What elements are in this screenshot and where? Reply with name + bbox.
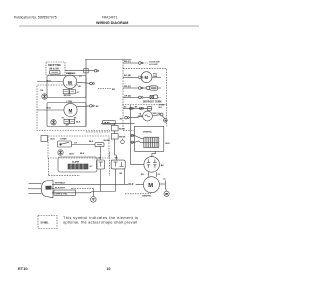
svg-text:C FAN: C FAN [66, 100, 72, 103]
svg-text:BR: BR [112, 89, 115, 91]
main bus down to relay [131, 105, 144, 164]
svg-text:WH: WH [159, 107, 163, 109]
cold control dashed box [48, 136, 109, 158]
svg-text:BK: BK [161, 165, 164, 167]
svg-text:GY: GY [77, 92, 80, 94]
circled sensor 3 [58, 150, 63, 155]
terminal board box [135, 126, 171, 151]
svg-text:GY: GY [90, 166, 94, 168]
wire: terminal board to relay [152, 151, 156, 156]
condenser fan motor enclosure [47, 103, 86, 127]
ground bar wire [92, 191, 115, 193]
svg-text:M: M [69, 108, 73, 113]
freezer fan motor M3 [141, 72, 152, 83]
svg-text:TB BK: TB BK [104, 122, 111, 124]
svg-text:OL: OL [158, 174, 162, 176]
circled sensor 1 [42, 94, 47, 99]
node D defrost heater row [123, 86, 161, 90]
svg-text:RD BK: RD BK [119, 129, 126, 131]
svg-text:RN: RN [141, 174, 144, 176]
optional symbol note box [38, 216, 57, 229]
svg-text:BLK: BLK [70, 154, 75, 156]
svg-text:EVAP FAN: EVAP FAN [66, 72, 76, 75]
wire: cold control to connector [72, 144, 96, 146]
cabinet left wall [85, 60, 87, 127]
evaporator fan motor M1 [63, 75, 77, 89]
dashed separator below alarm box [49, 175, 81, 177]
svg-text:BLK: BLK [166, 143, 171, 145]
svg-text:RD: RD [120, 119, 123, 121]
svg-text:ET10: ET10 [18, 266, 28, 271]
node B freezer fan row [123, 72, 161, 83]
dashed edge right of junction area [109, 152, 111, 176]
node C door switch row [123, 61, 159, 66]
svg-text:DOOR SW: DOOR SW [149, 61, 159, 63]
inline component on timer wire [84, 69, 88, 73]
svg-text:TB: TB [139, 113, 142, 115]
connector squares chain [104, 123, 127, 160]
ground symbol [91, 192, 97, 203]
svg-text:BK: BK [120, 173, 123, 175]
alarm control box [58, 153, 97, 172]
connector pair on M1 wire [90, 82, 93, 85]
defrost heater [150, 86, 158, 90]
svg-text:GY/BK: GY/BK [60, 139, 67, 141]
svg-text:OLD: OLD [129, 184, 134, 186]
svg-text:LS: LS [163, 178, 166, 180]
defrost timer box [46, 62, 65, 75]
svg-text:GRN/YEL: GRN/YEL [142, 196, 152, 198]
svg-text:ALARM: ALARM [72, 161, 80, 164]
svg-text:BLK: BLK [80, 153, 85, 155]
svg-text:BK: BK [96, 106, 99, 108]
junction block 2 [111, 160, 125, 169]
svg-text:BLK/WHT: BLK/WHT [55, 188, 66, 190]
svg-text:BLK: BLK [89, 141, 94, 143]
svg-text:4MF RUN: 4MF RUN [64, 94, 72, 97]
svg-text:WH: WH [115, 158, 119, 160]
bracket terminal [41, 136, 48, 142]
svg-text:FAN: FAN [153, 75, 157, 78]
connector pair on timer wire [94, 69, 97, 72]
svg-text:BLK: BLK [51, 139, 56, 141]
svg-text:10: 10 [107, 267, 111, 271]
run capacitor [159, 178, 169, 196]
supply wire labels [55, 181, 72, 184]
wire: junction block 1 down [100, 169, 102, 192]
svg-text:GRN/YEL: GRN/YEL [143, 131, 153, 133]
start relay and overload [141, 157, 164, 177]
evaporator fan motor enclosure [47, 76, 86, 98]
svg-text:M: M [145, 75, 149, 80]
svg-text:DEFROST TERM: DEFROST TERM [143, 101, 161, 103]
junction block 1 [97, 160, 105, 169]
connector on lamp wire [160, 113, 163, 116]
svg-text:WH BK: WH BK [119, 137, 126, 139]
node E defrost thermostat row [123, 95, 165, 109]
run capacitor M2 [64, 119, 69, 123]
header rule [19, 25, 199, 27]
svg-text:WIRING DIAGRAM: WIRING DIAGRAM [96, 21, 128, 25]
svg-text:BLK: BLK [47, 107, 52, 109]
svg-text:Mf & SH: Mf & SH [50, 67, 59, 70]
node Y symbol [121, 140, 125, 144]
wire: timer output [65, 70, 94, 72]
svg-text:T/S: T/S [40, 90, 44, 92]
machine compartment dashed box [123, 105, 135, 131]
svg-text:M: M [68, 80, 72, 85]
lamp feed wire [101, 122, 135, 124]
svg-text:& LIGHT: & LIGHT [149, 64, 158, 66]
svg-text:FRA14FT1: FRA14FT1 [102, 15, 118, 19]
left outer dashed enclosure [37, 85, 110, 131]
wire: left wall to M2 [37, 109, 64, 111]
cabinet top wall [85, 59, 132, 61]
condenser fan motor M2 [64, 103, 77, 116]
label BR on left of dashed wall [98, 88, 111, 90]
wire: left wall to M1 [37, 81, 63, 83]
svg-text:BK: BK [78, 86, 81, 88]
connector H ground [162, 116, 165, 119]
svg-text:4MF: 4MF [66, 124, 69, 127]
svg-text:BO (B): BO (B) [124, 75, 131, 77]
circled sensor 2 [51, 120, 56, 125]
power supply plug [28, 180, 53, 198]
svg-text:optional, the actual shape sha: optional, the actual shape shall prevail [63, 220, 137, 224]
wire: junction block 2 down [114, 169, 116, 192]
wire: M2 upper right [77, 105, 90, 108]
svg-text:WH BK: WH BK [104, 140, 111, 142]
svg-text:BK: BK [99, 158, 102, 160]
wire: connector down to junction block 1 [100, 147, 102, 160]
cold control thermostat [58, 141, 72, 147]
svg-text:SYMBL: SYMBL [41, 223, 50, 225]
svg-text:BLK: BLK [76, 122, 81, 124]
run capacitor M1 [63, 90, 69, 94]
wire: M1 to connector [77, 82, 90, 83]
freezer compartment dashed box [123, 68, 166, 104]
interior light row node F [120, 111, 167, 122]
svg-text:WHT/BLK: WHT/BLK [55, 182, 66, 184]
terminal board feed wires from bus [131, 135, 135, 137]
ground wire from compressor (dashed) [125, 193, 151, 195]
svg-text:GY: GY [79, 76, 82, 78]
svg-text:GRN & YEL: GRN & YEL [56, 193, 69, 195]
svg-text:M: M [148, 183, 153, 189]
inline connector [95, 143, 104, 147]
compressor motor [52, 177, 159, 198]
svg-text:GY: GY [74, 142, 78, 144]
interior light lamp [143, 111, 153, 121]
svg-text:Publication No. 5995507075: Publication No. 5995507075 [14, 16, 57, 20]
